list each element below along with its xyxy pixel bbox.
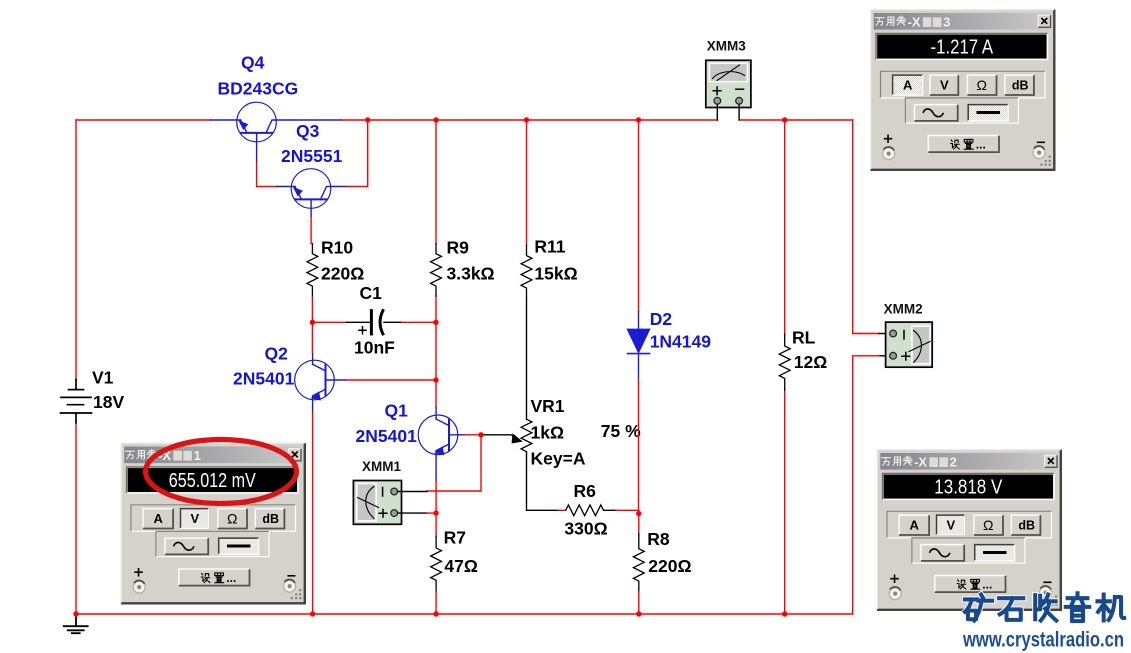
- wire XMM2 top branch: [853, 120, 890, 334]
- svg-text:Q1: Q1: [385, 401, 409, 421]
- label 12 ohm: [794, 352, 828, 372]
- svg-text:13.818 V: 13.818 V: [934, 477, 1003, 499]
- transistor Q2: [295, 353, 346, 413]
- junction node ground corner: [73, 611, 78, 616]
- wire Q3 collector to rail: [346, 120, 367, 187]
- multimeter panel XMM2: [877, 449, 1063, 611]
- label R8: [647, 529, 670, 549]
- svg-text:XMM2: XMM2: [884, 302, 923, 317]
- label XMM2: [884, 302, 923, 317]
- label 330 ohm: [564, 519, 607, 539]
- battery V1: [61, 380, 92, 423]
- transistor Q3: [276, 169, 346, 217]
- label Key=A: [531, 449, 586, 469]
- wire R11 to VR1: [526, 299, 528, 419]
- wire wiper arrow to VR1: [481, 434, 522, 443]
- svg-text:1kΩ: 1kΩ: [531, 423, 565, 443]
- label R6: [574, 481, 597, 501]
- watermark url: [962, 628, 1124, 652]
- svg-text:12Ω: 12Ω: [794, 352, 828, 372]
- wire XMM1 plus lead: [398, 512, 437, 514]
- resistor RL: [779, 334, 790, 390]
- junction node R6 R8: [636, 511, 641, 516]
- resistor R8: [633, 534, 644, 592]
- label VR1: [531, 396, 565, 416]
- label 2N5401 Q1: [356, 426, 418, 446]
- junction node C1 left: [310, 320, 315, 325]
- junction node top rail Q3: [365, 117, 370, 122]
- wire Q2 emitter down: [312, 412, 314, 614]
- multimeter icon XMM2: [886, 322, 933, 367]
- capacitor C1: [359, 311, 383, 334]
- wire Q1 base to VR1 node: [466, 434, 482, 436]
- svg-text:R6: R6: [574, 481, 597, 501]
- multimeter icon XMM3: [706, 60, 751, 107]
- label 15k ohm: [534, 263, 577, 283]
- wire top rail center segment: [341, 119, 718, 121]
- svg-text:18V: 18V: [93, 392, 124, 412]
- wire left vertical V1 branch: [75, 120, 77, 614]
- diode D2: [628, 312, 650, 379]
- label 18V: [93, 392, 124, 412]
- wire XMM3 plus lead: [716, 104, 718, 120]
- label 10nF: [354, 337, 395, 357]
- label Q2: [265, 344, 289, 364]
- svg-text:2N5551: 2N5551: [281, 146, 343, 166]
- wire XMM3 minus lead: [738, 104, 740, 120]
- wire R9 column middle: [435, 322, 437, 407]
- transistor Q1: [418, 407, 465, 481]
- label 220 ohm R10: [321, 263, 364, 283]
- junction node bottom Q2: [310, 611, 315, 616]
- svg-text:Key=A: Key=A: [531, 449, 586, 469]
- wire Q2 base to R9 column: [346, 379, 436, 381]
- wire Q1 node down to XMM1: [427, 435, 481, 491]
- svg-text:47Ω: 47Ω: [444, 556, 478, 576]
- wire R8 to bottom rail: [638, 592, 640, 615]
- wire Q2 collector node: [311, 322, 313, 352]
- wire D2 column top: [638, 120, 640, 312]
- label 1N4149: [650, 331, 712, 351]
- junction node C1 right: [433, 320, 438, 325]
- wire C1 right: [384, 321, 436, 323]
- label Q4: [241, 52, 265, 72]
- multimeter icon XMM1: [353, 481, 401, 525]
- wire VR1 bottom to R6: [527, 452, 566, 510]
- svg-text:Q3: Q3: [296, 121, 320, 141]
- label 2N5401 Q2: [233, 369, 295, 389]
- label 47 ohm: [444, 556, 478, 576]
- svg-text:1N4149: 1N4149: [650, 331, 712, 351]
- wire top rail left segment: [76, 119, 211, 121]
- wire D2 to R8: [638, 379, 640, 534]
- label Q3: [296, 121, 320, 141]
- watermark logo text: [965, 593, 1124, 621]
- svg-text:-X: -X: [914, 454, 927, 469]
- label R9: [447, 237, 470, 257]
- svg-text:330Ω: 330Ω: [564, 519, 607, 539]
- label 3.3k ohm: [447, 263, 495, 283]
- wire Q3 base to R10: [310, 217, 312, 244]
- svg-text:2: 2: [950, 454, 957, 469]
- junction node Q2 base: [433, 377, 438, 382]
- svg-text:-1.217 A: -1.217 A: [931, 37, 994, 59]
- label R7: [444, 528, 466, 548]
- junction node Q1 base: [478, 432, 483, 437]
- label 75 %: [601, 421, 641, 441]
- potentiometer VR1: [521, 419, 532, 452]
- junction node top rail R9: [433, 117, 438, 122]
- wire top rail right segment: [740, 119, 853, 121]
- label D2: [650, 309, 673, 329]
- svg-text:3.3kΩ: 3.3kΩ: [447, 263, 495, 283]
- junction node top rail RL: [782, 117, 787, 122]
- label R11: [534, 236, 565, 256]
- red circle annotation: [146, 440, 297, 504]
- svg-text:220Ω: 220Ω: [648, 556, 691, 576]
- svg-text:-X: -X: [908, 14, 921, 29]
- ground: [64, 615, 88, 633]
- svg-text:1: 1: [194, 448, 201, 463]
- label XMM3: [707, 38, 746, 53]
- label 220 ohm R8: [648, 556, 691, 576]
- svg-text:Q4: Q4: [241, 52, 265, 72]
- multimeter panel XMM1: [121, 443, 307, 605]
- junction node XMM1 plus: [433, 510, 438, 515]
- label 1k ohm: [531, 423, 565, 443]
- svg-text:V1: V1: [92, 367, 114, 387]
- svg-text:VR1: VR1: [531, 396, 565, 416]
- resistor R11: [521, 245, 532, 299]
- svg-text:220Ω: 220Ω: [321, 263, 364, 283]
- wire R10 to C1 node: [311, 297, 313, 322]
- multimeter panel XMM3: [870, 9, 1056, 171]
- wire R11 column top: [526, 120, 528, 245]
- junction node bottom R8: [636, 611, 641, 616]
- svg-text:75 %: 75 %: [601, 421, 641, 441]
- resistor R10: [307, 244, 318, 298]
- svg-text:R8: R8: [647, 529, 670, 549]
- svg-text:R9: R9: [447, 237, 470, 257]
- wire XMM2 bottom branch: [853, 356, 890, 614]
- wire R6 to R8 node: [616, 509, 639, 511]
- svg-text:R10: R10: [321, 237, 353, 257]
- svg-text:BD243CG: BD243CG: [218, 79, 299, 99]
- label XMM1: [362, 459, 401, 474]
- svg-text:D2: D2: [650, 309, 673, 329]
- svg-text:R11: R11: [534, 236, 565, 256]
- junction node bottom R7: [433, 611, 438, 616]
- svg-text:XMM1: XMM1: [362, 459, 401, 474]
- wire bottom rail: [76, 613, 853, 615]
- junction node bottom RL: [782, 611, 787, 616]
- svg-text:C1: C1: [360, 283, 383, 303]
- wire RL column: [784, 120, 786, 614]
- svg-text:Q2: Q2: [265, 344, 289, 364]
- junction node top rail D2: [636, 117, 641, 122]
- resistor R6: [566, 505, 616, 516]
- svg-text:15kΩ: 15kΩ: [534, 263, 577, 283]
- wire R7 to bottom rail: [435, 592, 437, 614]
- svg-text:XMM3: XMM3: [707, 38, 746, 53]
- svg-text:2N5401: 2N5401: [356, 426, 418, 446]
- wire Q1 emitter down: [435, 481, 437, 537]
- label R10: [321, 237, 353, 257]
- svg-text:RL: RL: [792, 328, 816, 348]
- svg-text:R7: R7: [444, 528, 466, 548]
- wire R9 column: [435, 120, 437, 322]
- label BD243CG: [218, 79, 299, 99]
- svg-text:3: 3: [943, 14, 950, 29]
- junction node top rail R11: [524, 117, 529, 122]
- svg-text:www.crystalradio.cn: www.crystalradio.cn: [962, 628, 1124, 652]
- wire Q4 base to Q3: [257, 162, 277, 187]
- label V1: [92, 367, 114, 387]
- label 2N5551: [281, 146, 343, 166]
- label Q1: [385, 401, 409, 421]
- svg-text:655.012 mV: 655.012 mV: [169, 470, 257, 492]
- label C1: [360, 283, 383, 303]
- wire C1 left: [312, 321, 370, 323]
- label RL: [792, 328, 816, 348]
- wire XMM1 minus lead: [398, 491, 427, 493]
- transistor Q4: [211, 102, 341, 162]
- resistor R9: [431, 244, 442, 297]
- resistor R7: [431, 536, 442, 592]
- svg-text:10nF: 10nF: [354, 337, 395, 357]
- svg-text:2N5401: 2N5401: [233, 369, 295, 389]
